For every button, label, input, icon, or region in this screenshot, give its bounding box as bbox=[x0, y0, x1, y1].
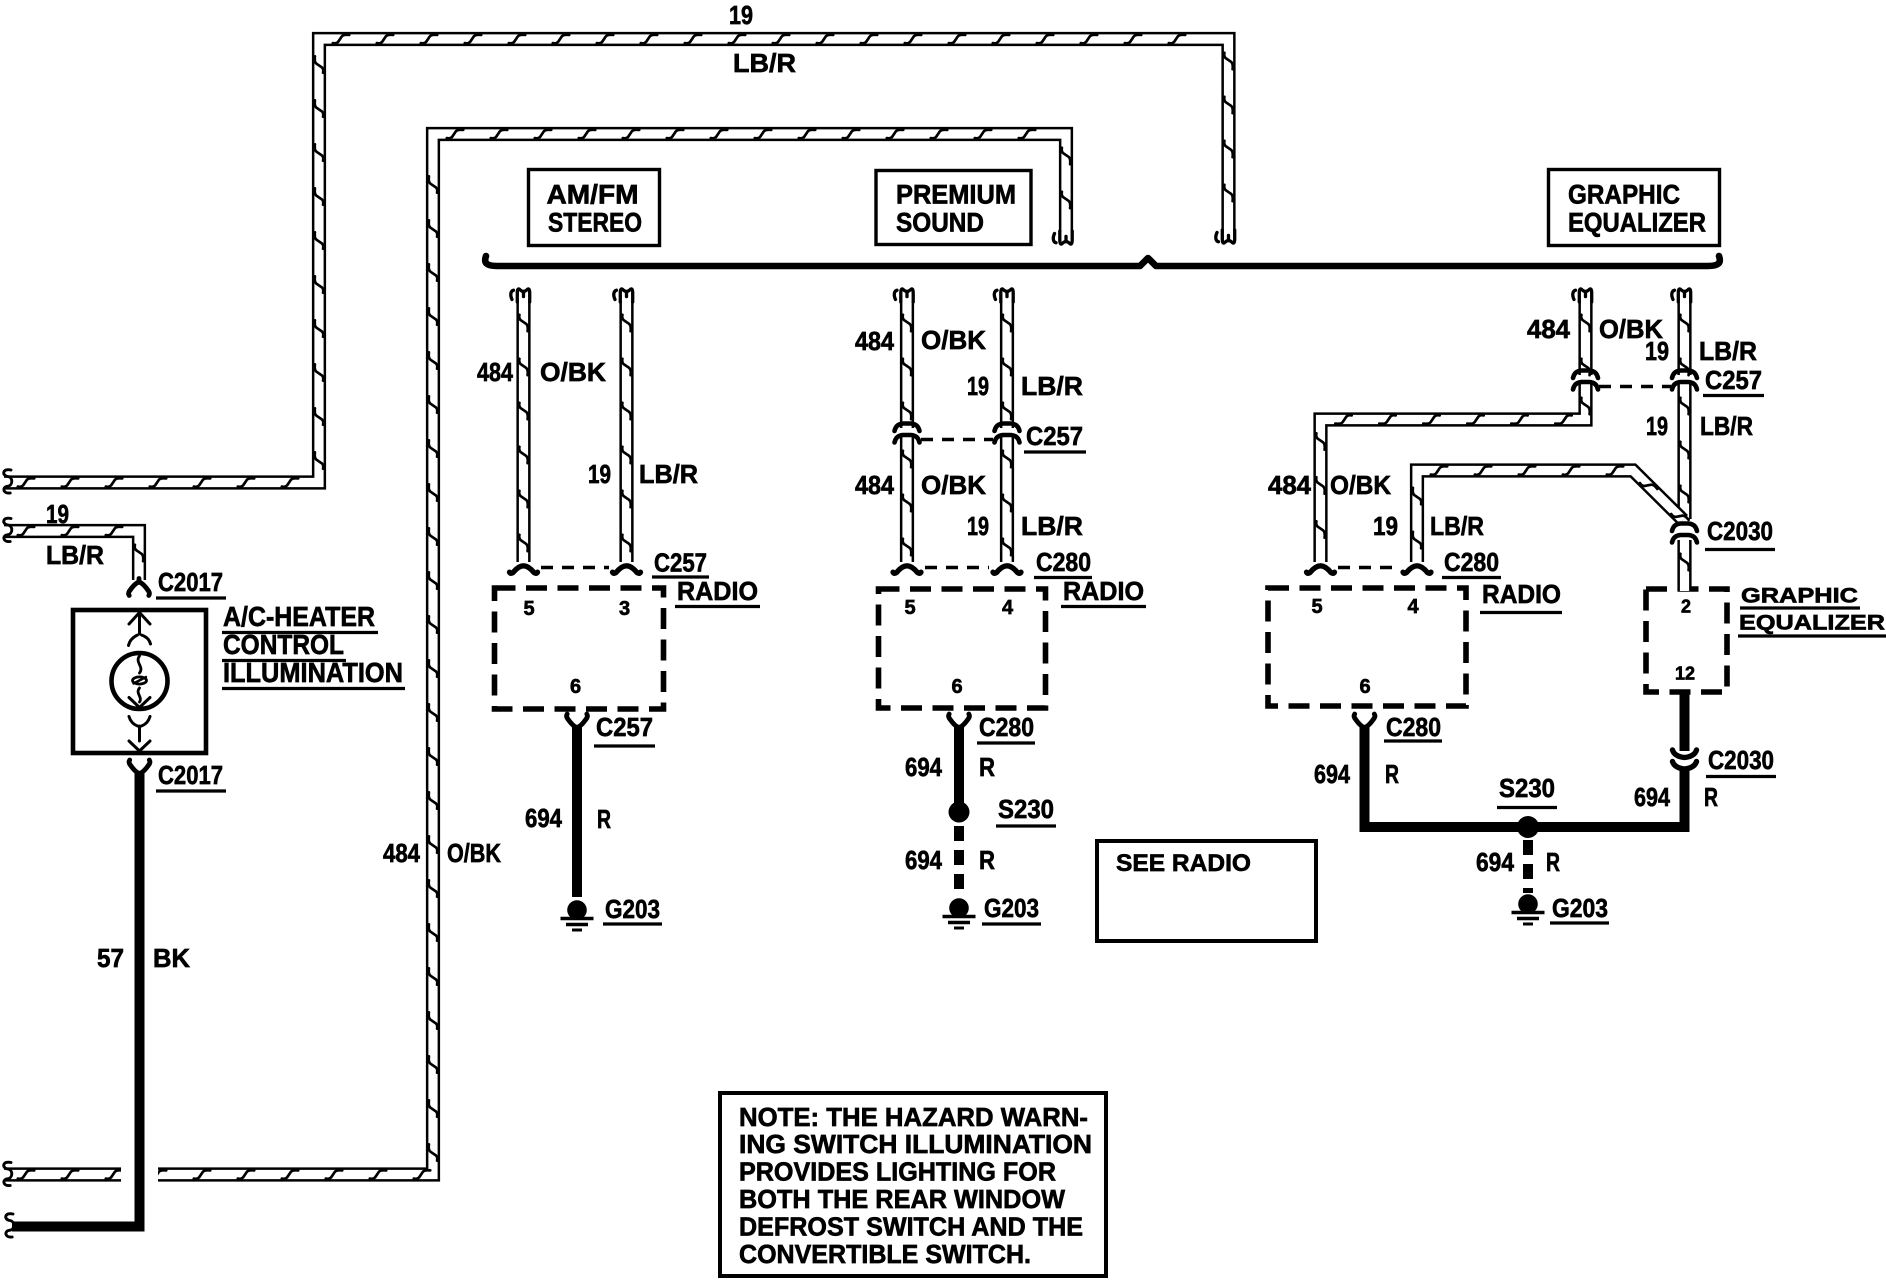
svg-text:19: 19 bbox=[588, 459, 611, 489]
lamp filament bbox=[138, 656, 141, 702]
svg-text:GRAPHIC: GRAPHIC bbox=[1741, 585, 1858, 608]
connector C280 half below radio (equalizer) bbox=[1354, 714, 1375, 731]
svg-text:19: 19 bbox=[1645, 336, 1669, 366]
splice S230 bbox=[1517, 816, 1539, 838]
lamp pin fork (bottom) bbox=[129, 717, 150, 742]
connector C257 inline halves (19 wire) bbox=[1672, 371, 1697, 390]
svg-text:484: 484 bbox=[855, 470, 894, 500]
svg-text:2: 2 bbox=[1681, 597, 1691, 617]
svg-text:694: 694 bbox=[1314, 759, 1350, 789]
svg-text:C257: C257 bbox=[654, 548, 707, 578]
connector C2017 half (bottom) bbox=[129, 760, 150, 777]
svg-text:STEREO: STEREO bbox=[548, 208, 642, 238]
label S230 bbox=[996, 794, 1056, 826]
svg-text:19: 19 bbox=[46, 499, 69, 529]
label C257 bbox=[652, 548, 709, 578]
svg-text:6: 6 bbox=[570, 676, 581, 698]
svg-text:694: 694 bbox=[905, 752, 942, 782]
connector end 19 LB/R below brace (equalizer) bbox=[1672, 289, 1691, 302]
svg-text:LB/R: LB/R bbox=[1021, 371, 1083, 401]
label A/C-HEATER bbox=[222, 601, 378, 632]
label G203 bbox=[982, 893, 1041, 924]
svg-text:RADIO: RADIO bbox=[1063, 578, 1144, 606]
svg-text:CONVERTIBLE SWITCH.: CONVERTIBLE SWITCH. bbox=[739, 1241, 1031, 1269]
svg-text:LB/R: LB/R bbox=[733, 48, 796, 78]
label C257 bbox=[1703, 365, 1764, 395]
connector C257 half (pin5 wire) bbox=[510, 566, 538, 574]
svg-text:C257: C257 bbox=[596, 712, 653, 742]
svg-text:BOTH THE REAR WINDOW: BOTH THE REAR WINDOW bbox=[739, 1186, 1066, 1214]
svg-text:ING SWITCH ILLUMINATION: ING SWITCH ILLUMINATION bbox=[739, 1131, 1092, 1159]
svg-text:EQUALIZER: EQUALIZER bbox=[1568, 208, 1706, 238]
wire 694 R (splice to ground, dashed) bbox=[1523, 840, 1533, 893]
label ILLUMINATION bbox=[222, 657, 405, 688]
wire 694 R (equalizer ground path) bbox=[1365, 727, 1685, 827]
label GRAPHIC (dashed box) bbox=[1740, 585, 1860, 608]
lamp pin arrow (top) bbox=[129, 613, 150, 635]
wire 694 R (premium splice to ground, dashed) bbox=[954, 826, 964, 896]
note box SEE RADIO bbox=[1097, 841, 1316, 941]
svg-text:GRAPHIC: GRAPHIC bbox=[1568, 180, 1680, 210]
wire 484 O/BK (equalizer to radio pin 5) bbox=[1316, 384, 1590, 562]
connector end 19 LB/R below brace (premium) bbox=[994, 289, 1013, 302]
component box GRAPHIC EQUALIZER bbox=[1549, 170, 1720, 246]
svg-text:ILLUMINATION: ILLUMINATION bbox=[223, 657, 403, 688]
wire 484 O/BK (AM/FM radio pin 5) bbox=[519, 301, 528, 562]
label S230 bbox=[1497, 773, 1557, 807]
svg-text:G203: G203 bbox=[984, 893, 1039, 923]
svg-text:5: 5 bbox=[1311, 596, 1322, 618]
wire 484 O/BK (premium, above C257) bbox=[903, 301, 912, 428]
svg-text:484: 484 bbox=[855, 326, 894, 356]
connector end wire 484 at options brace bbox=[1053, 231, 1072, 244]
connector C257 inline halves (19 wire) bbox=[995, 424, 1020, 443]
component box RADIO (dashed, C257) bbox=[495, 588, 664, 709]
svg-text:CONTROL: CONTROL bbox=[223, 629, 344, 660]
ground G203 (premium) bbox=[943, 898, 976, 928]
svg-text:DEFROST SWITCH AND THE: DEFROST SWITCH AND THE bbox=[739, 1213, 1083, 1241]
lamp bulb bbox=[112, 653, 168, 709]
connector C257 half below radio bbox=[567, 714, 588, 731]
svg-text:4: 4 bbox=[1002, 597, 1014, 619]
connector C257 link bbox=[921, 438, 993, 441]
svg-text:19: 19 bbox=[1373, 511, 1398, 541]
svg-text:R: R bbox=[1704, 782, 1718, 812]
svg-text:A/C-HEATER: A/C-HEATER bbox=[223, 601, 375, 632]
svg-text:6: 6 bbox=[1359, 676, 1370, 698]
svg-text:5: 5 bbox=[523, 598, 534, 620]
svg-text:LB/R: LB/R bbox=[1430, 511, 1484, 541]
svg-text:EQUALIZER: EQUALIZER bbox=[1739, 612, 1885, 635]
wire 694 R (AM/FM ground) bbox=[572, 727, 582, 897]
svg-text:3: 3 bbox=[619, 598, 630, 620]
connector C280 half (pin4 wire) bbox=[1403, 566, 1431, 574]
label RADIO (premium) bbox=[1061, 578, 1146, 607]
svg-text:C257: C257 bbox=[1705, 365, 1762, 395]
splice S230 bbox=[949, 802, 970, 823]
label RADIO bbox=[675, 578, 760, 607]
component box PREMIUM SOUND bbox=[876, 171, 1031, 245]
break symbol wire 484 O/BK left edge bbox=[4, 1162, 12, 1185]
label CONTROL bbox=[222, 629, 346, 660]
connector end 484 O/BK below brace (premium) bbox=[894, 289, 913, 302]
connector C280 half (pin5 wire) bbox=[1307, 566, 1335, 574]
wire 19 LB/R (circuit 19, top run) bbox=[4, 35, 1233, 487]
svg-text:19: 19 bbox=[729, 0, 753, 30]
label G203 bbox=[603, 894, 662, 924]
svg-text:C2030: C2030 bbox=[1708, 745, 1774, 775]
break symbol wire 19 LB/R left edge bbox=[4, 470, 12, 493]
component box AM/FM STEREO bbox=[529, 170, 660, 246]
connector C280 half (pin4 wire) bbox=[993, 566, 1021, 574]
svg-text:LB/R: LB/R bbox=[639, 459, 698, 489]
note box hazard warning bbox=[720, 1093, 1106, 1276]
svg-text:484: 484 bbox=[1268, 470, 1312, 500]
svg-text:C280: C280 bbox=[1036, 547, 1091, 577]
wire 57 BK bbox=[12, 773, 158, 1227]
svg-text:O/BK: O/BK bbox=[921, 325, 986, 355]
svg-text:694: 694 bbox=[1476, 847, 1514, 877]
svg-text:5: 5 bbox=[904, 597, 915, 619]
wire 694 R (premium, to splice) bbox=[954, 727, 964, 814]
connector C257 inline halves (484 wire) bbox=[1573, 371, 1598, 390]
component box GRAPHIC EQUALIZER (dashed) bbox=[1646, 589, 1727, 692]
wire 19 LB/R (C257 to C2030) bbox=[1680, 384, 1689, 519]
label C280 bbox=[1034, 547, 1092, 577]
label RADIO (equalizer) bbox=[1480, 581, 1562, 613]
svg-text:O/BK: O/BK bbox=[921, 470, 986, 500]
connector C257 half (pin3 wire) bbox=[613, 566, 641, 574]
wire 19 LB/R (premium, below C257) bbox=[1003, 437, 1012, 562]
connector C2030 inline halves bbox=[1672, 524, 1697, 543]
svg-text:R: R bbox=[979, 845, 995, 875]
svg-text:R: R bbox=[1385, 759, 1399, 789]
svg-text:O/BK: O/BK bbox=[447, 838, 501, 868]
options brace (connects to one of) bbox=[485, 256, 1720, 266]
connector end 484 O/BK below brace bbox=[511, 289, 530, 302]
lamp pin arrow (bottom) bbox=[129, 741, 150, 751]
label C257 bbox=[1024, 421, 1086, 452]
component box A/C-heater control illumination bbox=[73, 610, 206, 753]
component box RADIO premium (dashed, C280) bbox=[879, 589, 1046, 708]
svg-text:19: 19 bbox=[967, 511, 989, 541]
wire 19 LB/R (equalizer, above C257) bbox=[1680, 301, 1689, 375]
svg-text:O/BK: O/BK bbox=[1330, 470, 1391, 500]
svg-text:694: 694 bbox=[1634, 782, 1670, 812]
svg-text:694: 694 bbox=[905, 845, 942, 875]
svg-text:S230: S230 bbox=[1499, 773, 1555, 803]
wire 19 LB/R (C2030 to equalizer pin 2) bbox=[1680, 540, 1689, 591]
svg-text:19: 19 bbox=[967, 371, 989, 401]
connector C280 link bbox=[1338, 566, 1399, 569]
svg-text:484: 484 bbox=[1527, 314, 1571, 344]
svg-text:R: R bbox=[597, 804, 611, 834]
svg-text:PROVIDES LIGHTING FOR: PROVIDES LIGHTING FOR bbox=[739, 1159, 1056, 1187]
svg-text:R: R bbox=[1546, 847, 1560, 877]
svg-text:RADIO: RADIO bbox=[1482, 581, 1561, 609]
svg-text:LB/R: LB/R bbox=[1700, 411, 1753, 441]
break symbol wire 19 LB/R (C2017) left edge bbox=[4, 518, 12, 541]
svg-text:BK: BK bbox=[153, 943, 190, 973]
svg-text:C280: C280 bbox=[1444, 547, 1499, 577]
svg-text:484: 484 bbox=[477, 357, 513, 387]
svg-text:C280: C280 bbox=[1386, 712, 1441, 742]
svg-text:LB/R: LB/R bbox=[1699, 336, 1757, 366]
svg-text:C2017: C2017 bbox=[158, 567, 223, 597]
svg-text:C2017: C2017 bbox=[158, 760, 223, 790]
lamp pin fork (top) bbox=[129, 635, 151, 646]
connector C280 link bbox=[925, 566, 989, 569]
connector C257 link bbox=[541, 566, 609, 569]
svg-text:SEE RADIO: SEE RADIO bbox=[1116, 850, 1251, 877]
label C280 (below radio) bbox=[977, 712, 1035, 743]
connector C257 inline halves (484 wire) bbox=[895, 424, 920, 443]
wire 19 LB/R (premium, above C257) bbox=[1003, 301, 1012, 428]
connector end wire 19 at options brace bbox=[1216, 230, 1235, 243]
svg-text:C2030: C2030 bbox=[1707, 516, 1773, 546]
svg-text:484: 484 bbox=[383, 838, 420, 868]
svg-text:57: 57 bbox=[97, 943, 124, 973]
break symbol wire 57 BK left edge bbox=[6, 1214, 14, 1237]
svg-text:6: 6 bbox=[951, 676, 962, 698]
svg-text:LB/R: LB/R bbox=[1021, 511, 1083, 541]
svg-text:NOTE: THE HAZARD WARN-: NOTE: THE HAZARD WARN- bbox=[739, 1104, 1088, 1132]
label C2030 (thick connector) bbox=[1706, 745, 1776, 776]
label C2017 (top) bbox=[156, 567, 226, 598]
connector C280 half (pin5 wire) bbox=[893, 566, 921, 574]
svg-text:AM/FM: AM/FM bbox=[547, 180, 639, 210]
wire 19 LB/R to C2017 bbox=[4, 527, 143, 580]
ground G203 (equalizer) bbox=[1512, 894, 1545, 924]
svg-text:RADIO: RADIO bbox=[677, 578, 758, 606]
svg-text:694: 694 bbox=[525, 803, 562, 833]
wire 484 O/BK (equalizer, above C257) bbox=[1581, 301, 1590, 375]
svg-text:12: 12 bbox=[1675, 664, 1695, 684]
label C280 (below radio) bbox=[1384, 712, 1442, 742]
component box RADIO equalizer (dashed, C280) bbox=[1268, 588, 1466, 706]
label G203 bbox=[1550, 893, 1609, 923]
svg-text:G203: G203 bbox=[605, 894, 660, 924]
svg-text:R: R bbox=[979, 752, 995, 782]
connector C257 link bbox=[1599, 385, 1671, 388]
svg-text:O/BK: O/BK bbox=[540, 357, 606, 387]
connector C2030 halves (thick) bbox=[1673, 750, 1697, 769]
svg-text:PREMIUM: PREMIUM bbox=[896, 180, 1016, 210]
label C2017 (bottom) bbox=[156, 760, 226, 791]
lamp pin arrow (inside bottom) bbox=[129, 698, 150, 708]
connector end 484 O/BK below brace (equalizer) bbox=[1573, 289, 1592, 302]
svg-text:SOUND: SOUND bbox=[896, 208, 984, 238]
svg-text:G203: G203 bbox=[1552, 893, 1608, 923]
wire 19 LB/R (AM/FM radio pin 3) bbox=[622, 301, 631, 562]
label C2030 bbox=[1705, 516, 1775, 549]
label C257 (below radio) bbox=[594, 712, 655, 746]
svg-text:4: 4 bbox=[1407, 596, 1419, 618]
wire from equalizer pin 12 bbox=[1680, 693, 1690, 751]
ground G203 (AM/FM) bbox=[561, 900, 594, 930]
connector C2017 half (top) bbox=[129, 579, 150, 596]
label C280 bbox=[1442, 547, 1501, 577]
svg-text:19: 19 bbox=[1646, 411, 1668, 441]
svg-text:S230: S230 bbox=[998, 794, 1054, 824]
wire 19 LB/R (radio pin 4 to C2030) bbox=[1413, 466, 1689, 562]
label EQUALIZER (dashed box) bbox=[1738, 612, 1886, 636]
connector end 19 LB/R below brace bbox=[614, 289, 633, 302]
wire 484 O/BK (premium, below C257) bbox=[903, 437, 912, 562]
svg-text:C257: C257 bbox=[1026, 421, 1083, 451]
connector C280 half below radio bbox=[949, 714, 970, 731]
wire 484 O/BK (long run) bbox=[4, 130, 1070, 1179]
svg-text:C280: C280 bbox=[979, 712, 1034, 742]
svg-text:LB/R: LB/R bbox=[46, 540, 104, 570]
